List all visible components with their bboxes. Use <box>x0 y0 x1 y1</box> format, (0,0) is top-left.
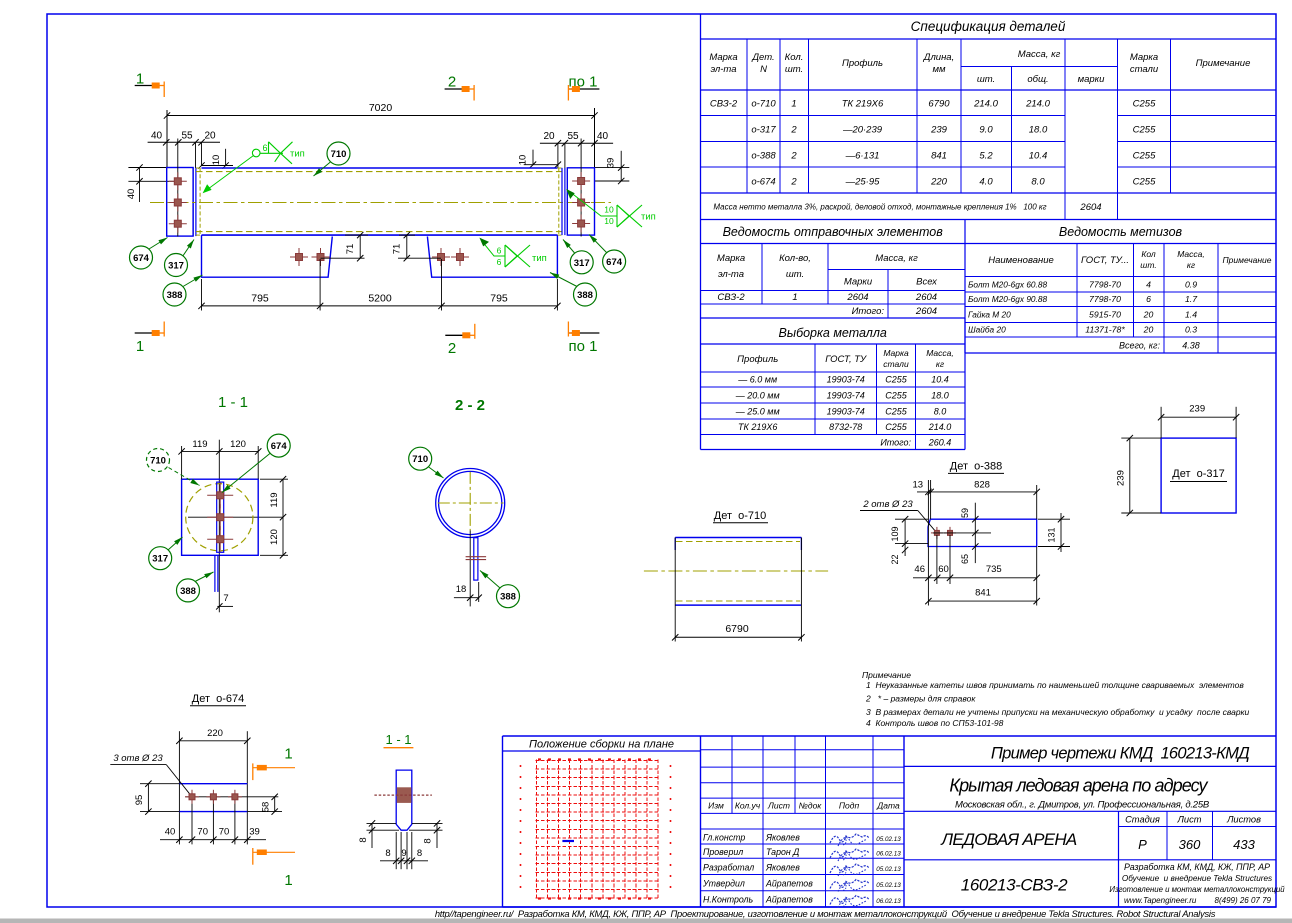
svg-text:360: 360 <box>1179 837 1201 852</box>
svg-text:№док: №док <box>799 801 823 811</box>
weld marks brown (section 2-2) <box>466 556 487 558</box>
svg-text:22: 22 <box>890 554 900 564</box>
dim 220 (o-674) <box>179 740 247 742</box>
svg-text:674: 674 <box>133 253 150 264</box>
svg-text:Изм: Изм <box>708 801 724 811</box>
dim 239 (top o-317) <box>1160 407 1162 438</box>
svg-text:Кол.: Кол. <box>785 52 804 63</box>
svg-text:2604: 2604 <box>915 306 937 317</box>
svg-text:Дет о-317: Дет о-317 <box>1172 468 1225 480</box>
svg-text:8732-78: 8732-78 <box>829 422 862 432</box>
svg-text:388: 388 <box>577 290 593 301</box>
svg-text:Ведомость метизов: Ведомость метизов <box>1059 225 1183 239</box>
svg-text:Выборка металла: Выборка металла <box>779 326 887 340</box>
dim 8 right (section 1-1 small) <box>412 822 443 824</box>
svg-text:шт.: шт. <box>1140 260 1156 270</box>
dim 10 (top left) <box>202 165 234 167</box>
bolts in section 1-1 <box>207 494 233 496</box>
svg-text:119: 119 <box>269 492 280 507</box>
svg-text:71: 71 <box>345 244 356 255</box>
svg-text:3 отв Ø 23: 3 отв Ø 23 <box>113 753 163 764</box>
svg-text:Профиль: Профиль <box>737 354 778 365</box>
svg-text:710: 710 <box>150 456 166 467</box>
svg-text:Кол-во,: Кол-во, <box>779 253 811 264</box>
svg-text:2 - 2: 2 - 2 <box>455 397 485 414</box>
svg-text:8.0: 8.0 <box>934 407 947 417</box>
balloon 710 (elevation) <box>314 162 332 177</box>
dims 46 60 735 (o-388) <box>913 577 1037 579</box>
svg-text:Кол.уч: Кол.уч <box>735 801 761 811</box>
svg-text:2: 2 <box>448 74 456 91</box>
svg-text:20: 20 <box>1143 310 1154 320</box>
svg-text:Дет о-674: Дет о-674 <box>192 693 245 705</box>
svg-text:388: 388 <box>167 290 183 301</box>
svg-text:http//tapengineer.ru/ Разрабо: http//tapengineer.ru/ Разработка КМ, КМД… <box>435 908 1216 919</box>
svg-text:Всего, кг:: Всего, кг: <box>1119 341 1161 351</box>
svg-text:40: 40 <box>597 131 609 142</box>
svg-text:05.02.13: 05.02.13 <box>876 866 901 873</box>
dims 40 55 20 (top left) <box>148 141 220 143</box>
svg-text:Листов: Листов <box>1226 815 1261 825</box>
svg-text:ТК 219Х6: ТК 219Х6 <box>738 422 777 432</box>
svg-text:Итого:: Итого: <box>852 306 885 317</box>
svg-text:Ведомость отправочных элементо: Ведомость отправочных элементов <box>723 225 944 239</box>
svg-text:06.02.13: 06.02.13 <box>876 851 901 858</box>
section 1-1 centerlines <box>218 440 220 556</box>
svg-text:9.0: 9.0 <box>979 125 993 136</box>
dim 18 (section 2-2) <box>454 597 479 599</box>
tube hidden inner walls (dashed) <box>196 171 565 173</box>
svg-text:—6·131: —6·131 <box>845 151 880 162</box>
svg-text:Проверил: Проверил <box>703 847 743 857</box>
bottom plate o-388 right piece <box>427 235 557 277</box>
svg-text:239: 239 <box>1116 470 1127 486</box>
svg-text:220: 220 <box>207 728 223 739</box>
balloon 317 (section 1-1) <box>168 537 183 550</box>
svg-text:1 - 1: 1 - 1 <box>385 732 411 747</box>
svg-text:С255: С255 <box>885 391 908 401</box>
balloon 388 left <box>183 275 203 287</box>
svg-text:95: 95 <box>134 795 145 806</box>
svg-text:60: 60 <box>938 564 949 575</box>
svg-text:ГОСТ, ТУ...: ГОСТ, ТУ... <box>1081 255 1129 266</box>
tube circles (section 2-2) <box>436 469 505 538</box>
svg-text:6: 6 <box>1146 294 1151 304</box>
plate o-388 below (section) <box>214 555 216 592</box>
svg-text:Положение сборки на плане: Положение сборки на плане <box>529 739 674 751</box>
detail o-674 plate <box>178 731 180 844</box>
svg-text:о-388: о-388 <box>751 151 776 162</box>
svg-text:Н.Контроль: Н.Контроль <box>703 895 753 905</box>
svg-text:С255: С255 <box>1133 177 1156 188</box>
svg-text:0.9: 0.9 <box>1185 280 1197 290</box>
svg-text:71: 71 <box>392 244 403 255</box>
svg-text:www.Tapengineer.ru: www.Tapengineer.ru <box>1124 896 1197 905</box>
hidden tube end (dashed) left <box>199 168 201 235</box>
svg-text:3 В размерах детали не учтены: 3 В размерах детали не учтены припуски н… <box>866 707 1250 717</box>
dims 795 5200 795 <box>202 305 558 307</box>
svg-text:Гл.констр: Гл.констр <box>703 833 745 843</box>
section marker po 1 (bottom) <box>568 332 599 334</box>
svg-text:19903-74: 19903-74 <box>827 391 865 401</box>
end plate o-674 right <box>567 168 594 235</box>
stage/sheet cells <box>1118 811 1120 907</box>
balloon 388 (section 2-2) <box>480 571 500 589</box>
svg-text:260.4: 260.4 <box>928 438 952 448</box>
svg-text:Марка: Марка <box>883 348 909 358</box>
svg-text:стали: стали <box>1130 64 1159 75</box>
dim 10 (top right) <box>524 164 558 166</box>
svg-text:Профиль: Профиль <box>842 58 883 69</box>
dim 841 (o-388) <box>927 547 929 606</box>
dims 40 70 70 39 (o-674) <box>160 839 266 841</box>
svg-text:6: 6 <box>262 143 267 153</box>
dim 131 (o-388) <box>1038 518 1070 520</box>
balloon 317 left <box>183 240 195 257</box>
svg-text:239: 239 <box>1189 404 1205 415</box>
svg-text:мм: мм <box>932 64 946 75</box>
svg-text:05.02.13: 05.02.13 <box>876 882 901 889</box>
svg-text:6790: 6790 <box>928 99 950 110</box>
svg-text:эл-та: эл-та <box>718 269 744 280</box>
svg-text:795: 795 <box>490 293 508 305</box>
balloon 674 right <box>589 235 607 254</box>
assembly position box (Положение сборки на плане) <box>502 736 504 907</box>
svg-text:С255: С255 <box>885 407 908 417</box>
svg-text:65: 65 <box>960 554 970 564</box>
svg-text:4.0: 4.0 <box>979 177 993 188</box>
svg-text:55: 55 <box>181 131 193 142</box>
svg-text:1: 1 <box>791 99 796 110</box>
svg-text:18.0: 18.0 <box>931 391 949 401</box>
svg-text:317: 317 <box>168 261 184 272</box>
svg-text:388: 388 <box>500 592 516 603</box>
svg-text:— 20.0 мм: — 20.0 мм <box>735 391 780 401</box>
svg-text:Марки: Марки <box>844 277 873 288</box>
vertical plate o-674 (section) <box>217 482 224 552</box>
svg-text:46: 46 <box>914 564 925 575</box>
project name rows <box>904 765 1276 767</box>
highlighted member (blue) in plan <box>562 840 574 842</box>
svg-text:8: 8 <box>358 837 369 842</box>
svg-text:2: 2 <box>448 340 456 357</box>
svg-text:20: 20 <box>543 131 555 142</box>
svg-text:Масса,: Масса, <box>1177 249 1205 259</box>
svg-text:ГОСТ, ТУ: ГОСТ, ТУ <box>825 354 867 365</box>
svg-text:—20·239: —20·239 <box>842 125 883 136</box>
svg-text:Марка: Марка <box>709 52 737 63</box>
svg-text:0.3: 0.3 <box>1185 325 1197 335</box>
bolts left end <box>177 139 179 237</box>
svg-text:тип: тип <box>641 212 656 223</box>
dims 8 9 8 (section 1-1 small) <box>380 860 428 862</box>
svg-text:Масса, кг: Масса, кг <box>875 253 918 264</box>
svg-text:1 - 1: 1 - 1 <box>218 394 248 411</box>
svg-text:Яковлев: Яковлев <box>765 863 800 873</box>
svg-text:Р: Р <box>1138 837 1147 852</box>
svg-text:СВЗ-2: СВЗ-2 <box>710 99 738 110</box>
balloon 674 (section 1-1) <box>222 453 271 493</box>
dim 109 22 (o-388) <box>895 518 928 520</box>
svg-text:841: 841 <box>975 588 991 599</box>
dim 39 (right) <box>595 167 630 169</box>
dim 7020 overall <box>167 115 595 117</box>
tube o-710 outline <box>202 167 558 169</box>
balloon 710 dashed (section 1-1) <box>169 468 200 486</box>
svg-text:2604: 2604 <box>1079 202 1101 213</box>
title block grid <box>503 906 1277 908</box>
dim 71 right <box>406 235 408 258</box>
svg-text:710: 710 <box>412 454 428 465</box>
svg-text:10.4: 10.4 <box>1029 151 1048 162</box>
svg-text:8: 8 <box>423 838 434 843</box>
detail o-388 plate <box>928 519 1037 546</box>
svg-text:о-317: о-317 <box>751 125 776 136</box>
svg-text:эл-та: эл-та <box>710 64 736 75</box>
svg-text:общ.: общ. <box>1027 74 1048 85</box>
svg-text:Обучение и внедрение Tekla St: Обучение и внедрение Tekla Structures <box>1122 874 1272 883</box>
gray bottom strip <box>0 919 1292 923</box>
svg-text:Примечание: Примечание <box>1196 58 1251 69</box>
svg-text:828: 828 <box>974 480 990 491</box>
svg-text:шт.: шт. <box>786 269 804 280</box>
dim 13 828 (o-388) <box>917 491 1037 493</box>
svg-text:7798-70: 7798-70 <box>1089 280 1121 290</box>
svg-text:6790: 6790 <box>725 623 749 635</box>
tube centerline <box>150 202 611 204</box>
svg-text:кг: кг <box>936 359 944 369</box>
end plate o-674 left <box>167 168 193 237</box>
balloon 674 left <box>149 238 168 250</box>
bolts right end <box>580 139 582 237</box>
detail o-710 tube <box>675 537 801 539</box>
svg-text:05.02.13: 05.02.13 <box>876 836 901 843</box>
svg-text:4 Контроль швов по СП53-101-9: 4 Контроль швов по СП53-101-98 <box>866 718 1004 728</box>
svg-text:о-710: о-710 <box>751 99 776 110</box>
dims 119 120 (top of 1-1) <box>182 450 259 452</box>
svg-text:10: 10 <box>518 155 529 166</box>
svg-text:388: 388 <box>180 586 196 597</box>
svg-text:N: N <box>760 64 767 75</box>
signatures (blue scribbles) <box>830 834 869 843</box>
svg-text:Айрапетов: Айрапетов <box>765 879 813 889</box>
svg-text:по 1: по 1 <box>569 338 598 355</box>
svg-text:13: 13 <box>913 480 924 491</box>
svg-text:6: 6 <box>497 257 502 267</box>
bolts on bottom plate <box>290 256 308 258</box>
svg-text:Масса нетто металла 3%, раскро: Масса нетто металла 3%, раскрой, деловой… <box>713 203 1046 212</box>
svg-text:ТК 219Х6: ТК 219Х6 <box>842 99 884 110</box>
svg-text:Наименование: Наименование <box>988 255 1054 266</box>
svg-text:8: 8 <box>417 848 422 859</box>
svg-text:СВЗ-2: СВЗ-2 <box>717 292 745 303</box>
dim 58 (o-674) <box>247 811 282 813</box>
svg-text:2: 2 <box>790 151 797 162</box>
svg-text:735: 735 <box>986 564 1002 575</box>
dim 59 65 (o-388) <box>974 503 976 563</box>
svg-text:19903-74: 19903-74 <box>827 375 865 385</box>
svg-text:40: 40 <box>126 189 137 200</box>
svg-text:Примечание: Примечание <box>862 670 911 680</box>
svg-text:119: 119 <box>192 439 207 450</box>
dim 40 (left vertical) <box>128 167 166 169</box>
square plate o-317 (section) <box>182 479 259 555</box>
svg-text:Стадия: Стадия <box>1125 815 1160 825</box>
svg-text:220: 220 <box>930 177 948 188</box>
svg-text:06.02.13: 06.02.13 <box>876 898 901 905</box>
svg-text:Кол: Кол <box>1141 249 1156 259</box>
svg-text:Длина,: Длина, <box>923 52 954 63</box>
svg-text:тип: тип <box>290 149 305 160</box>
svg-text:— 25.0 мм: — 25.0 мм <box>735 407 780 417</box>
svg-text:2: 2 <box>790 125 797 136</box>
dims 20 55 40 (top right) <box>540 142 613 144</box>
svg-text:Дата: Дата <box>876 801 900 811</box>
svg-text:18: 18 <box>456 584 467 595</box>
svg-text:7: 7 <box>223 593 228 604</box>
weld fill brown (section 1-1 small) <box>397 787 412 803</box>
svg-text:1: 1 <box>136 338 144 355</box>
svg-text:40: 40 <box>151 131 163 142</box>
svg-text:19903-74: 19903-74 <box>827 407 865 417</box>
svg-text:40: 40 <box>165 827 176 838</box>
svg-text:Лист: Лист <box>1177 815 1202 825</box>
svg-text:8(499) 26 07 79: 8(499) 26 07 79 <box>1215 896 1272 905</box>
svg-text:марки: марки <box>1078 74 1106 85</box>
svg-text:9: 9 <box>401 848 406 859</box>
svg-text:18.0: 18.0 <box>1029 125 1048 136</box>
svg-text:о-674: о-674 <box>751 177 775 188</box>
svg-text:1 Неуказанные катеты швов при: 1 Неуказанные катеты швов принимать по н… <box>866 680 1244 690</box>
table: shipping elements list (Ведомость отправочных элементов) <box>700 220 702 450</box>
svg-text:2604: 2604 <box>846 292 868 303</box>
svg-text:1: 1 <box>284 872 292 889</box>
balloon 317 right <box>563 240 575 254</box>
dim 6790 (o-710) <box>674 538 676 642</box>
svg-text:Лист: Лист <box>767 801 790 811</box>
svg-text:Разработал: Разработал <box>703 863 754 873</box>
bottom plate o-388 left piece <box>202 235 333 277</box>
svg-text:10: 10 <box>604 216 614 226</box>
svg-text:7798-70: 7798-70 <box>1089 294 1121 304</box>
dims 119 120 (right of 1-1) <box>282 479 284 555</box>
holes (o-388) <box>931 532 943 534</box>
svg-text:795: 795 <box>251 293 269 305</box>
balloon 710 (section 2-2) <box>428 467 444 479</box>
svg-text:4: 4 <box>1146 280 1151 290</box>
svg-text:С255: С255 <box>1133 151 1156 162</box>
svg-text:Московская обл., г. Дмитров, у: Московская обл., г. Дмитров, ул. Професс… <box>955 800 1210 811</box>
svg-text:Гайка М 20: Гайка М 20 <box>968 310 1011 320</box>
svg-text:Масса, кг: Масса, кг <box>1018 49 1061 60</box>
svg-text:70: 70 <box>219 827 230 838</box>
dim 95 (o-674) <box>140 783 179 785</box>
plate o-388 (section 2-2) <box>474 538 478 580</box>
dim 71 left <box>359 235 361 258</box>
svg-text:55: 55 <box>567 131 579 142</box>
dim 7 (bottom of 1-1) <box>217 605 233 607</box>
plate (section 1-1 small) <box>396 770 412 830</box>
svg-text:674: 674 <box>271 441 288 452</box>
svg-text:6: 6 <box>497 246 502 256</box>
svg-text:710: 710 <box>331 149 347 160</box>
svg-text:Спецификация деталей: Спецификация деталей <box>911 19 1066 34</box>
svg-text:С255: С255 <box>885 422 908 432</box>
svg-text:С255: С255 <box>885 375 908 385</box>
svg-text:433: 433 <box>1233 837 1255 852</box>
svg-text:Итого:: Итого: <box>880 438 911 448</box>
svg-text:Болт М20-6gх 90.88: Болт М20-6gх 90.88 <box>968 294 1047 304</box>
svg-text:8: 8 <box>385 848 390 859</box>
svg-text:Пример чертежи КМД 160213-КМД: Пример чертежи КМД 160213-КМД <box>991 745 1250 763</box>
svg-text:Тарон Д: Тарон Д <box>766 847 799 857</box>
svg-text:841: 841 <box>931 151 947 162</box>
svg-text:Крытая ледовая арена по адресу: Крытая ледовая арена по адресу <box>949 776 1208 796</box>
svg-text:Подп: Подп <box>839 801 860 811</box>
svg-text:674: 674 <box>606 257 623 268</box>
svg-text:11371-78*: 11371-78* <box>1085 325 1125 335</box>
hidden tube end (dashed) right <box>558 168 560 235</box>
svg-text:5200: 5200 <box>368 293 392 305</box>
svg-text:Марка: Марка <box>717 253 745 264</box>
svg-text:10: 10 <box>211 155 222 166</box>
svg-text:59: 59 <box>960 508 970 518</box>
svg-text:131: 131 <box>1047 527 1057 542</box>
svg-text:214.0: 214.0 <box>973 99 998 110</box>
svg-text:Изготовление и монтаж металлок: Изготовление и монтаж металлоконструкций <box>1109 885 1285 894</box>
ring plate o-317 right <box>561 168 563 235</box>
balloon 388 (section 1-1) <box>195 572 214 582</box>
svg-text:120: 120 <box>230 439 246 450</box>
svg-text:Болт М20-6gх 60.88: Болт М20-6gх 60.88 <box>968 280 1047 290</box>
svg-text:39: 39 <box>249 827 260 838</box>
svg-text:Дет о-388: Дет о-388 <box>950 461 1003 473</box>
svg-text:Яковлев: Яковлев <box>765 833 800 843</box>
hidden tube circle (dashed) <box>186 484 253 551</box>
svg-text:214.0: 214.0 <box>1025 99 1050 110</box>
dim 8 left (section 1-1 small) <box>367 822 397 824</box>
svg-text:239: 239 <box>930 125 948 136</box>
svg-text:10: 10 <box>604 205 614 215</box>
svg-text:Масса,: Масса, <box>926 348 954 358</box>
svg-text:стали: стали <box>883 359 909 369</box>
balloon 388 right <box>550 273 577 287</box>
svg-text:1: 1 <box>792 292 797 303</box>
svg-text:Айрапетов: Айрапетов <box>765 895 813 905</box>
svg-text:Утвердил: Утвердил <box>702 879 745 889</box>
svg-text:120: 120 <box>269 529 280 545</box>
svg-text:Всех: Всех <box>916 277 938 288</box>
svg-text:2 отв Ø 23: 2 отв Ø 23 <box>862 499 913 510</box>
svg-text:— 6.0 мм: — 6.0 мм <box>737 375 777 385</box>
svg-text:Шайба 20: Шайба 20 <box>968 325 1006 335</box>
svg-text:58: 58 <box>261 802 272 813</box>
svg-text:5.2: 5.2 <box>979 151 993 162</box>
svg-text:70: 70 <box>197 827 208 838</box>
svg-text:214.0: 214.0 <box>928 422 952 432</box>
table: Specification of parts (Спецификация деталей) <box>701 38 1277 40</box>
svg-text:20: 20 <box>204 131 216 142</box>
svg-text:8.0: 8.0 <box>1031 177 1045 188</box>
svg-text:109: 109 <box>890 526 900 541</box>
svg-text:4.38: 4.38 <box>1182 341 1200 351</box>
svg-text:2: 2 <box>790 177 797 188</box>
svg-text:кг: кг <box>1187 260 1195 270</box>
svg-text:Дет о-710: Дет о-710 <box>714 510 767 522</box>
detail o-317 plate <box>1161 438 1236 513</box>
section marker 1 (bottom) <box>135 332 160 334</box>
svg-text:шт.: шт. <box>977 74 995 85</box>
